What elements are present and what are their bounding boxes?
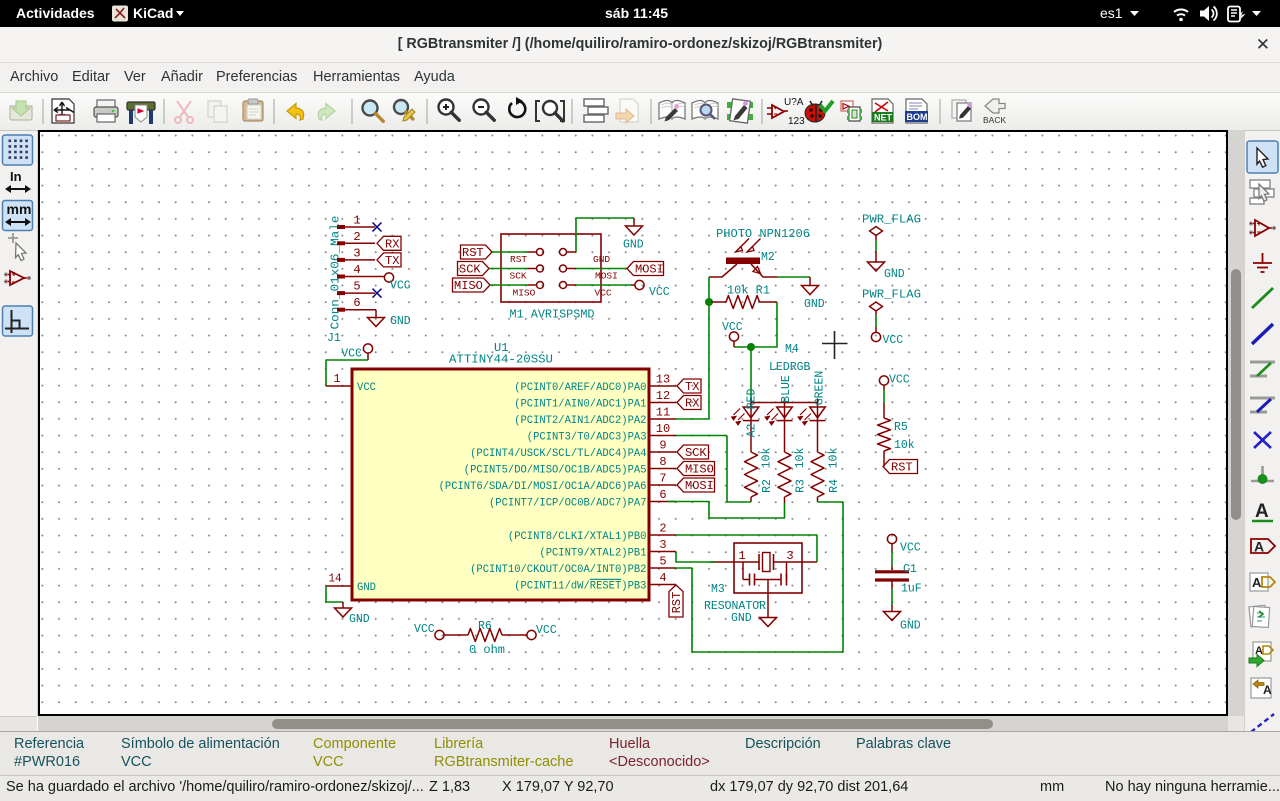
svg-text:SCK: SCK [459,263,481,277]
svg-text:10k: 10k [794,448,807,469]
svg-text:6: 6 [659,488,666,502]
svg-text:GND: GND [593,254,610,265]
svg-text:1: 1 [333,372,340,386]
svg-text:1: 1 [353,214,360,228]
svg-text:3: 3 [659,538,666,552]
svg-text:VCC: VCC [536,624,557,637]
svg-text:0 ohm: 0 ohm [469,644,505,657]
svg-text:(PCINT10/CKOUT/OC0A/INT0)PB2: (PCINT10/CKOUT/OC0A/INT0)PB2 [470,564,646,576]
svg-text:(PCINT8/CLKI/XTAL1)PB0: (PCINT8/CLKI/XTAL1)PB0 [508,531,647,543]
svg-text:SCK: SCK [510,271,527,282]
svg-text:MISO: MISO [685,463,714,477]
svg-text:GND: GND [731,612,752,625]
svg-text:A2: A2 [745,424,758,438]
svg-text:A: A [1255,645,1263,657]
svg-text:R2: R2 [761,479,774,493]
svg-text:5: 5 [353,280,360,294]
svg-text:A: A [1254,539,1264,555]
svg-text:5: 5 [659,555,666,569]
svg-text:3: 3 [353,246,360,260]
svg-text:A: A [1252,575,1262,590]
svg-text:2: 2 [353,230,360,244]
svg-text:ATTINY44-20SSU: ATTINY44-20SSU [449,353,553,367]
svg-text:TX: TX [685,380,699,394]
svg-text:TX: TX [385,254,399,268]
svg-text:PWR_FLAG: PWR_FLAG [862,288,921,302]
svg-text:10k R1: 10k R1 [727,285,770,298]
svg-text:VCC: VCC [414,623,435,636]
svg-text:R4: R4 [828,479,841,493]
svg-text:VCC: VCC [649,286,670,299]
svg-text:NET: NET [874,113,893,123]
svg-text:(PCINT1/AIN0/ADC1)PA1: (PCINT1/AIN0/ADC1)PA1 [514,399,647,411]
svg-text:(PCINT5/DO/MISO/OC1B/ADC5)PA5: (PCINT5/DO/MISO/OC1B/ADC5)PA5 [464,465,647,477]
svg-text:RST: RST [510,254,527,265]
svg-text:BACK: BACK [983,115,1006,125]
svg-text:GND: GND [357,582,376,594]
svg-text:GREEN: GREEN [813,371,826,406]
svg-text:MOSI: MOSI [595,271,618,282]
svg-text:RST: RST [462,246,484,260]
svg-text:J1: J1 [327,332,341,345]
svg-text:10k: 10k [827,448,840,469]
svg-text:VCC: VCC [390,280,411,293]
svg-text:BOM: BOM [907,112,928,122]
svg-text:PWR_FLAG: PWR_FLAG [862,213,921,227]
svg-text:VCC: VCC [595,288,612,299]
svg-text:A: A [1255,501,1269,522]
svg-text:R6: R6 [478,620,492,633]
svg-text:In: In [10,169,22,184]
svg-text:14: 14 [329,572,342,586]
svg-text:8: 8 [659,455,666,469]
svg-text:12: 12 [656,389,670,403]
svg-text:(PCINT9/XTAL2)PB1: (PCINT9/XTAL2)PB1 [539,548,646,560]
svg-text:3: 3 [786,549,793,563]
svg-text:(PCINT0/AREF/ADC0)PA0: (PCINT0/AREF/ADC0)PA0 [514,382,646,394]
svg-text:123: 123 [788,116,805,127]
svg-text:VCC: VCC [357,382,376,394]
svg-text:mm: mm [7,201,32,217]
svg-text:11: 11 [656,406,670,420]
svg-text:10: 10 [656,422,670,436]
svg-text:6: 6 [353,296,360,310]
svg-text:VCC: VCC [883,334,904,347]
svg-text:MISO: MISO [454,279,483,293]
svg-text:BLUE: BLUE [780,375,793,403]
svg-text:GND: GND [390,315,411,328]
svg-text:GND: GND [804,298,825,311]
svg-text:SCK: SCK [685,446,707,460]
svg-text:M2: M2 [761,251,775,264]
svg-text:GND: GND [349,613,370,626]
svg-text:R5: R5 [894,421,908,434]
svg-text:10k: 10k [760,448,773,469]
svg-text:RX: RX [385,237,399,251]
svg-text:PHOTO NPN1206: PHOTO NPN1206 [716,227,810,241]
svg-text:C1: C1 [903,563,917,576]
svg-text:LEDRGB: LEDRGB [769,361,811,374]
svg-text:GND: GND [900,620,921,633]
svg-text:M1 AVRISPSMD: M1 AVRISPSMD [510,309,595,322]
svg-text:2: 2 [659,522,666,536]
svg-text:10k: 10k [894,439,915,452]
svg-text:13: 13 [656,373,670,387]
svg-text:RST: RST [891,461,913,475]
svg-text:(PCINT7/ICP/OC0B/ADC7)PA7: (PCINT7/ICP/OC0B/ADC7)PA7 [489,498,647,510]
svg-text:4: 4 [353,263,360,277]
svg-text:U?A: U?A [784,97,804,108]
svg-text:A: A [1263,683,1272,697]
svg-text:GND: GND [884,268,905,281]
svg-text:(PCINT4/USCK/SCL/TL/ADC4)PA4: (PCINT4/USCK/SCL/TL/ADC4)PA4 [470,448,647,460]
svg-text:VCC: VCC [900,542,921,555]
svg-text:(PCINT2/AIN1/ADC2)PA2: (PCINT2/AIN1/ADC2)PA2 [514,415,646,427]
svg-text:VCC: VCC [889,374,910,387]
svg-text:MOSI: MOSI [635,263,664,277]
svg-text:(PCINT6/SDA/DI/MOSI/OC1A/ADC6): (PCINT6/SDA/DI/MOSI/OC1A/ADC6)PA6 [439,481,647,493]
svg-text:1uF: 1uF [901,583,922,596]
svg-text:MISO: MISO [513,288,536,299]
svg-text:M4: M4 [785,343,799,356]
svg-text:RED: RED [745,389,758,410]
svg-text:7: 7 [659,472,666,486]
svg-text:9: 9 [659,439,666,453]
svg-text:(PCINT3/T0/ADC3)PA3: (PCINT3/T0/ADC3)PA3 [527,432,647,444]
svg-text:RX: RX [685,397,699,411]
svg-text:GND: GND [623,239,644,252]
svg-text:1: 1 [738,549,745,563]
svg-text:MOSI: MOSI [685,479,714,493]
svg-text:RST: RST [670,592,684,614]
svg-text:VCC: VCC [341,348,362,361]
svg-text:M3: M3 [711,583,725,596]
svg-text:VCC: VCC [722,321,743,334]
svg-text:4: 4 [659,571,666,585]
svg-text:R3: R3 [794,479,807,493]
svg-text:(PCINT11/dW/RESET)PB3: (PCINT11/dW/RESET)PB3 [514,581,646,593]
svg-text:Conn_01x06_Male: Conn_01x06_Male [328,216,342,330]
